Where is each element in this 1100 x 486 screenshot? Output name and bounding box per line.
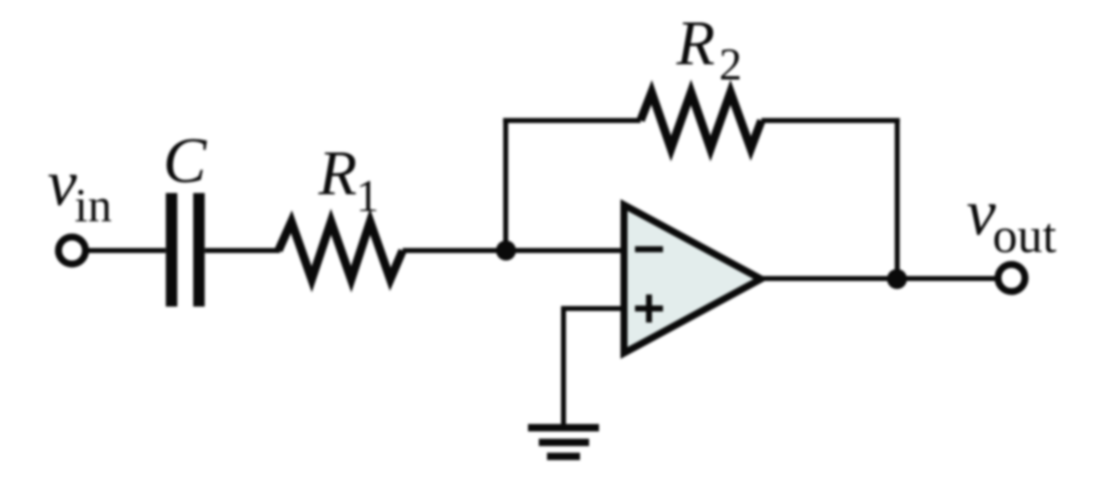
label v_in — [48, 147, 112, 233]
output terminal (open circle) — [998, 265, 1025, 292]
label R_1 — [318, 139, 380, 222]
resistor R1 zigzag — [279, 222, 403, 280]
wire non-inverting input horizontal — [564, 306, 625, 311]
feedback wire left segment — [503, 118, 640, 123]
wire non-inverting input down to ground — [561, 306, 566, 424]
op-amp plus sign (non-inverting input) — [635, 295, 663, 323]
label v_out — [967, 177, 1057, 264]
capacitor C plate left — [166, 193, 178, 307]
input terminal (open circle) — [59, 237, 86, 264]
junction node A (dot) — [496, 241, 516, 261]
svg-text:out: out — [993, 207, 1057, 263]
op-amp minus sign (inverting input) — [635, 246, 663, 252]
svg-text:R: R — [318, 139, 357, 209]
svg-text:v: v — [48, 147, 78, 220]
svg-text:C: C — [163, 125, 207, 197]
capacitor C plate right — [193, 193, 205, 307]
svg-text:2: 2 — [719, 39, 742, 90]
op-amp U1 triangle — [624, 205, 761, 353]
wire input terminal to capacitor — [89, 248, 166, 253]
resistor R2 zigzag — [641, 92, 762, 148]
feedback wire right segment — [761, 118, 899, 123]
label R_2 — [676, 9, 743, 90]
wire op-amp output to terminal — [758, 276, 998, 281]
wire R1 to op-amp inverting input — [403, 248, 624, 253]
wire node A up to feedback — [503, 118, 508, 251]
wire capacitor to resistor R1 — [205, 248, 280, 253]
feedback wire right vertical down — [895, 118, 900, 279]
output junction node (dot) — [887, 269, 907, 289]
svg-text:R: R — [676, 9, 715, 79]
svg-text:in: in — [75, 180, 112, 233]
ground symbol — [528, 424, 599, 460]
svg-text:1: 1 — [356, 170, 379, 221]
